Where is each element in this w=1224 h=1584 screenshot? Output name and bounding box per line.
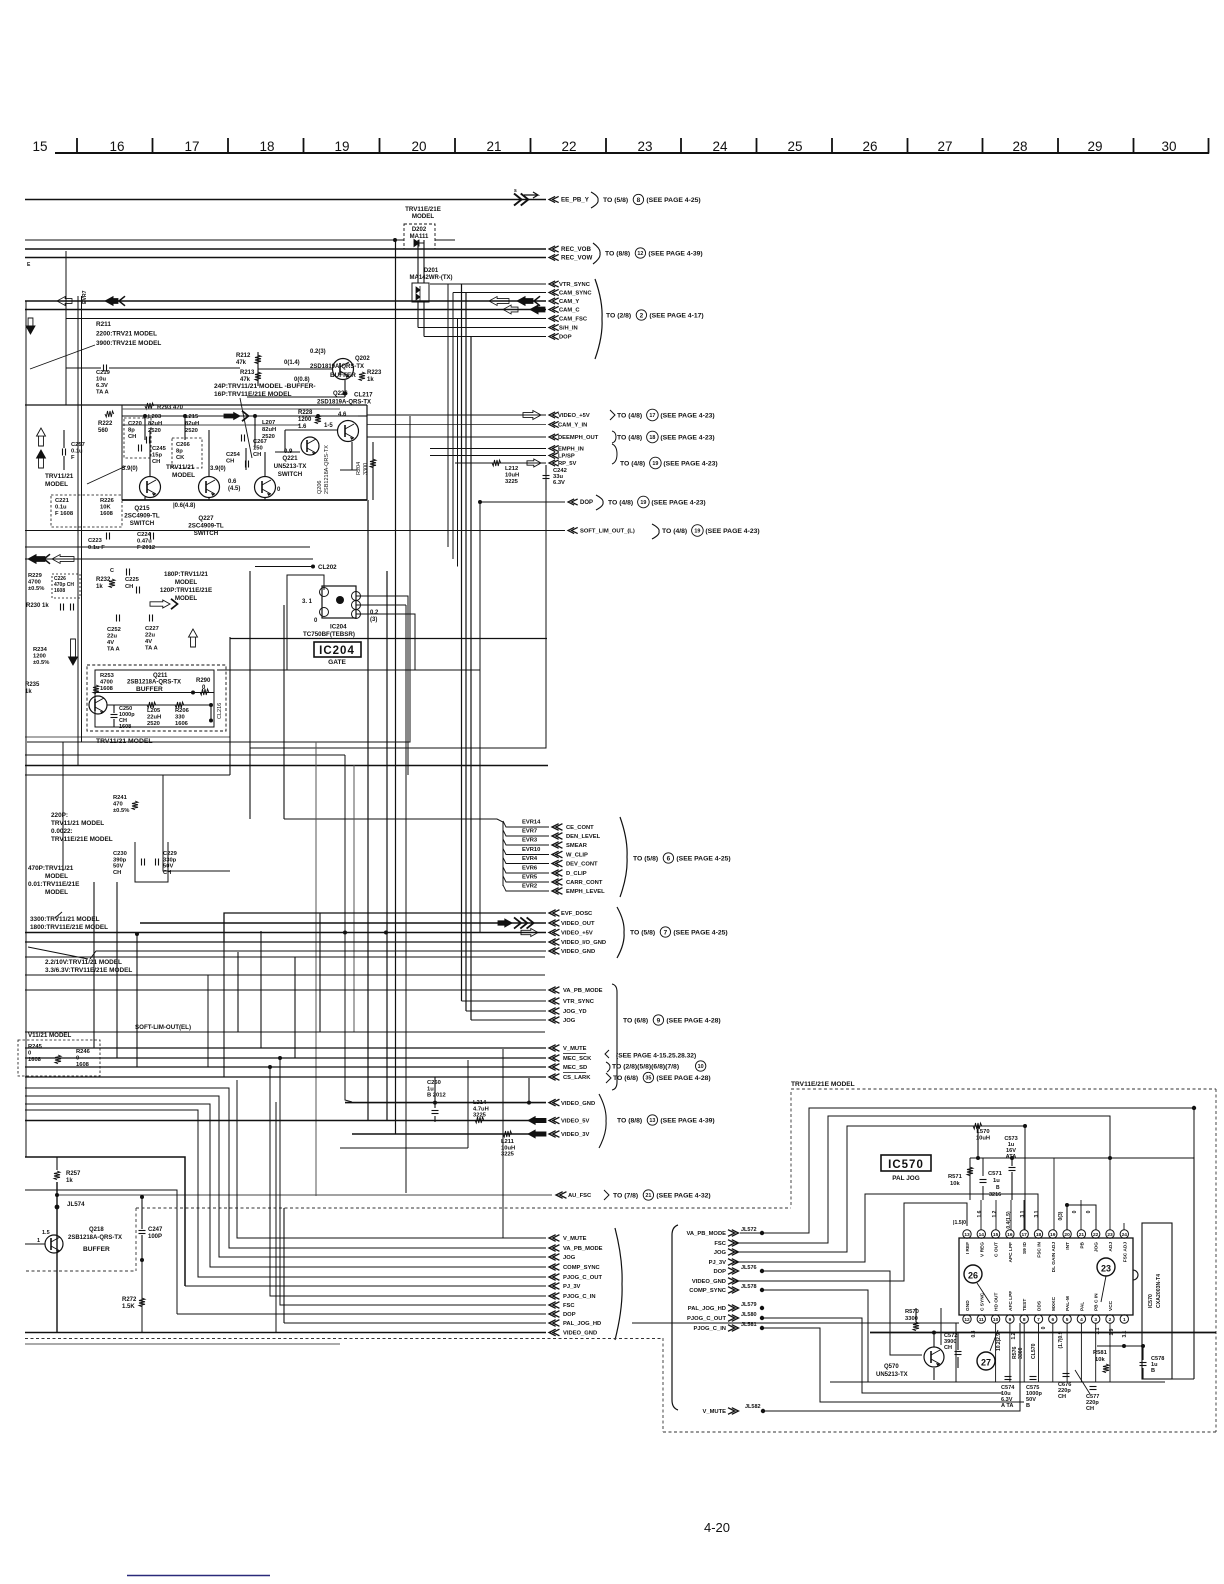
svg-text:JL581: JL581 <box>741 1322 757 1328</box>
wire EMPH_IN <box>430 448 546 450</box>
wire RP_5V <box>455 462 546 464</box>
svg-text:82uH: 82uH <box>262 427 276 433</box>
vertical bus 63 <box>62 742 64 871</box>
svg-text:12: 12 <box>637 251 643 257</box>
callout line R211 <box>30 345 95 369</box>
svg-text:C219: C219 <box>96 370 111 376</box>
svg-text:1k: 1k <box>367 377 374 383</box>
svg-text:REC_VOW: REC_VOW <box>561 255 592 262</box>
wire REC_VOW <box>25 257 546 259</box>
wire L203 stub <box>144 416 146 440</box>
svg-text:EVR6: EVR6 <box>522 866 538 872</box>
svg-text:SWITCH: SWITCH <box>194 530 219 537</box>
svg-text:1-5: 1-5 <box>324 423 333 429</box>
wire EVR feed <box>284 819 503 886</box>
svg-text:FSC IN: FSC IN <box>1037 1241 1043 1257</box>
svg-text:MXKC: MXKC <box>1051 1296 1057 1311</box>
svg-text:PAL: PAL <box>1079 1302 1085 1311</box>
svg-text:28: 28 <box>1012 139 1027 154</box>
svg-text:C254: C254 <box>226 452 241 458</box>
wire MEC_SCK <box>25 1057 546 1059</box>
svg-text:1800:TRV11E/21E MODEL: 1800:TRV11E/21E MODEL <box>30 924 108 931</box>
wire PJOG_C_IN route <box>762 1328 1024 1402</box>
svg-text:EVR5: EVR5 <box>522 875 538 881</box>
vertical bus 287b <box>286 637 288 670</box>
svg-text:4: 4 <box>1080 1317 1083 1323</box>
svg-text:INT: INT <box>1065 1242 1071 1250</box>
svg-text:V REG: V REG <box>979 1242 985 1257</box>
svg-text:R204: R204 <box>356 462 362 475</box>
svg-text:DOP: DOP <box>713 1269 726 1275</box>
svg-text:S/H_IN: S/H_IN <box>559 326 578 332</box>
arrow CAM_Y open <box>489 297 509 306</box>
svg-text:1608: 1608 <box>100 511 114 517</box>
wire box rail 425 <box>122 424 300 426</box>
svg-text:(SEE PAGE 4-25): (SEE PAGE 4-25) <box>673 929 727 936</box>
svg-text:DEEMPH_OUT: DEEMPH_OUT <box>558 435 599 441</box>
svg-text:1: 1 <box>1123 1317 1126 1323</box>
svg-text:6: 6 <box>1051 1317 1054 1323</box>
wire JOG_YD <box>466 1010 546 1012</box>
wire stair FSC <box>280 1058 546 1305</box>
svg-text:(SEE PAGE 4-32): (SEE PAGE 4-32) <box>656 1192 710 1199</box>
svg-text:1.6: 1.6 <box>298 424 307 430</box>
wire Q202 base rail <box>258 368 332 370</box>
svg-text:MODEL: MODEL <box>175 595 198 602</box>
label IC204 box <box>314 642 361 657</box>
wire q570 rail <box>870 1332 1216 1334</box>
op-amp IC204 body <box>322 586 356 618</box>
svg-text:2200:TRV21 MODEL: 2200:TRV21 MODEL <box>96 331 157 338</box>
label REC_VOB <box>549 246 559 252</box>
svg-text:V11/21 MODEL: V11/21 MODEL <box>28 1032 72 1039</box>
wire rail 1346 <box>1097 1345 1143 1347</box>
svg-text:TA A: TA A <box>145 646 158 652</box>
wire row 547 <box>25 546 310 548</box>
svg-text:TO (4/8): TO (4/8) <box>617 434 642 441</box>
wire PJOG_C_OUT route <box>762 1318 1002 1393</box>
svg-text:EVR4: EVR4 <box>522 856 538 862</box>
svg-text:30: 30 <box>1161 139 1176 154</box>
svg-text:DL GAIN ADJ: DL GAIN ADJ <box>1051 1242 1057 1273</box>
svg-text:GND: GND <box>965 1300 971 1311</box>
svg-text:GATE: GATE <box>328 659 346 666</box>
box Q218 dashed <box>136 1207 791 1209</box>
wire JOG 1020 <box>471 1019 546 1021</box>
svg-text:PB C IN: PB C IN <box>1094 1293 1100 1311</box>
svg-text:0.2: 0.2 <box>370 610 379 616</box>
labels V_MUTE group <box>549 1045 559 1052</box>
svg-text:PAL JOG: PAL JOG <box>892 1175 919 1182</box>
capacitor C266 box <box>172 438 202 468</box>
svg-text:|0.6(4.8): |0.6(4.8) <box>173 503 195 509</box>
wire V_MUTE 1048 <box>25 1047 546 1049</box>
svg-text:TO (4/8): TO (4/8) <box>608 499 633 506</box>
svg-text:C221: C221 <box>55 498 70 504</box>
svg-text:10: 10 <box>993 1317 999 1323</box>
svg-text:TA A: TA A <box>96 390 109 396</box>
svg-text:C224: C224 <box>137 532 152 538</box>
svg-text:Q215: Q215 <box>134 505 150 512</box>
vertical bus 453 <box>452 293 454 560</box>
svg-text:3900:TRV21E MODEL: 3900:TRV21E MODEL <box>96 340 161 347</box>
callout line 26 <box>977 1283 990 1303</box>
svg-text:C252: C252 <box>107 627 121 633</box>
svg-text:4700: 4700 <box>28 580 41 586</box>
svg-text:6.3V: 6.3V <box>96 383 108 389</box>
svg-text:C230: C230 <box>113 851 127 857</box>
transistor Q227 <box>199 477 220 498</box>
svg-text:1200: 1200 <box>33 654 46 660</box>
svg-text:PJOG_C_OUT: PJOG_C_OUT <box>563 1275 602 1281</box>
svg-text:R232: R232 <box>96 577 111 583</box>
transistor Q221 <box>255 477 276 498</box>
svg-text:VIDEO_GND: VIDEO_GND <box>561 1101 595 1107</box>
svg-text:20: 20 <box>1064 1232 1070 1238</box>
wire bus 765 <box>25 765 548 767</box>
svg-text:17: 17 <box>649 413 655 419</box>
arrow CAM_C open <box>503 305 518 314</box>
svg-text:(SEE PAGE 4-39): (SEE PAGE 4-39) <box>648 250 702 257</box>
svg-text:C260: C260 <box>427 1080 441 1086</box>
svg-text:Q227: Q227 <box>198 515 214 522</box>
wire VIDEO_+5V mid <box>367 414 546 416</box>
svg-text:TEST: TEST <box>1022 1299 1028 1311</box>
wire bottom rail 1379 <box>1142 1378 1194 1380</box>
svg-text:CAM_C: CAM_C <box>559 308 580 314</box>
svg-text:SOFT_LIM_OUT_(L): SOFT_LIM_OUT_(L) <box>580 529 635 535</box>
note TO page 4-23 (19a) <box>612 444 617 464</box>
svg-text:EVR7: EVR7 <box>82 290 88 304</box>
svg-text:CARR_CONT: CARR_CONT <box>566 880 603 886</box>
wire rail 1158 <box>970 1157 1194 1159</box>
svg-text:R229: R229 <box>28 573 43 579</box>
wires ic bottom pin drops <box>995 1323 997 1382</box>
vertical bus 26 <box>25 301 27 1157</box>
labels VTR_SYNC group <box>549 281 559 287</box>
wire VTR_SYNC <box>430 283 546 285</box>
svg-text:SMEAR: SMEAR <box>566 843 588 849</box>
svg-text:V_MUTE: V_MUTE <box>563 1236 587 1242</box>
svg-text:L203: L203 <box>148 414 162 420</box>
svg-text:15p: 15p <box>152 453 162 459</box>
vertical bus 66 <box>65 251 67 405</box>
svg-text:DOP: DOP <box>559 335 572 341</box>
capacitor C578 <box>1140 1362 1147 1364</box>
wire VIDEO_3V <box>352 1133 546 1135</box>
svg-text:VIDEO_+5V: VIDEO_+5V <box>561 931 593 937</box>
labels bottom group <box>549 1235 559 1242</box>
svg-text:(3): (3) <box>370 617 377 623</box>
svg-text:VCC: VCC <box>1108 1300 1114 1311</box>
svg-text:CL216: CL216 <box>217 703 223 719</box>
wire VIDEO_GND route <box>733 1203 967 1281</box>
svg-text:VTR_SYNC: VTR_SYNC <box>563 999 595 1005</box>
svg-text:JOG: JOG <box>563 1255 576 1261</box>
svg-text:3225: 3225 <box>505 479 519 485</box>
transistor Q570 <box>924 1347 944 1367</box>
svg-text:D202: D202 <box>412 227 427 233</box>
svg-text:R230 1k: R230 1k <box>26 603 49 609</box>
svg-text:EVR2: EVR2 <box>522 884 537 890</box>
vertical bus 457 <box>457 319 459 567</box>
wire IC204 p1 route <box>287 575 324 637</box>
svg-text:TO (5/8): TO (5/8) <box>603 197 628 204</box>
svg-text:3300:TRV11/21 MODEL: 3300:TRV11/21 MODEL <box>30 916 100 923</box>
svg-text:VIDEO_GND: VIDEO_GND <box>563 1331 597 1337</box>
svg-text:AFC LPF: AFC LPF <box>1008 1291 1014 1311</box>
vertical bus 406 <box>405 605 407 1193</box>
svg-text:(SEE PAGE 4-25): (SEE PAGE 4-25) <box>646 197 700 204</box>
svg-text:18: 18 <box>259 139 274 154</box>
svg-text:EVR14: EVR14 <box>522 820 541 826</box>
bracket connector <box>672 1225 678 1410</box>
wire COMP_SYNC route <box>762 1290 996 1382</box>
svg-text:50V: 50V <box>113 864 123 870</box>
svg-text:18: 18 <box>1036 1232 1042 1238</box>
wire VTR_SYNC 1001 <box>462 1000 547 1002</box>
svg-text:L214: L214 <box>473 1100 487 1106</box>
svg-text:F: F <box>71 455 75 461</box>
callout 23 <box>1097 1258 1115 1276</box>
svg-text:JL572: JL572 <box>741 1227 757 1233</box>
net EVR7 vertical <box>77 296 79 765</box>
wire CS_LARK <box>25 1076 546 1078</box>
wire REC_VOB <box>25 248 546 250</box>
svg-text:1.2: 1.2 <box>992 1210 998 1217</box>
svg-text:C227: C227 <box>145 626 159 632</box>
wire Q211 base rail <box>95 692 214 694</box>
svg-text:Q226: Q226 <box>333 391 348 397</box>
svg-text:TO (5/8): TO (5/8) <box>630 929 655 936</box>
svg-text:DOP: DOP <box>563 1312 576 1318</box>
svg-text:TRV11E/21E: TRV11E/21E <box>405 206 441 213</box>
dashed boundary bottom-left <box>25 1338 663 1340</box>
wire DOP top <box>424 336 546 338</box>
ic IC570 body <box>959 1238 1133 1315</box>
capacitor C224 <box>150 533 152 540</box>
vertical bus 320b <box>319 913 321 1032</box>
svg-text:PAL_JOG_HD: PAL_JOG_HD <box>688 1306 726 1312</box>
svg-text:(SEE PAGE 4-28): (SEE PAGE 4-28) <box>666 1017 720 1024</box>
vertical bus 224b <box>223 942 225 1077</box>
brace 17 <box>610 410 615 420</box>
wire bus 742 <box>27 416 410 742</box>
svg-text:HD OUT: HD OUT <box>994 1293 1000 1311</box>
vertical bus 316 <box>315 742 317 1196</box>
svg-text:C229: C229 <box>163 851 178 857</box>
wire bus 670 <box>217 669 480 671</box>
svg-text:CH: CH <box>125 584 133 590</box>
box C221 R226 <box>51 495 122 527</box>
svg-text:CAM_Y_IN: CAM_Y_IN <box>558 423 587 429</box>
svg-text:D_CLIP: D_CLIP <box>566 871 587 877</box>
svg-text:F 1608: F 1608 <box>55 511 74 517</box>
svg-text:23: 23 <box>637 139 652 154</box>
svg-text:R245: R245 <box>28 1044 43 1050</box>
wire 957 <box>25 956 545 958</box>
svg-text:TO (6/8): TO (6/8) <box>623 1017 648 1024</box>
svg-text:11: 11 <box>979 1317 984 1323</box>
svg-text:Q202: Q202 <box>355 356 370 362</box>
svg-text:21: 21 <box>486 139 501 154</box>
svg-text:MA142WR-(TX): MA142WR-(TX) <box>410 275 453 281</box>
arrow right 604 <box>150 600 170 608</box>
svg-text:F 2012: F 2012 <box>137 545 155 551</box>
svg-text:10k: 10k <box>950 1181 960 1187</box>
svg-text:C OUT: C OUT <box>994 1242 1000 1257</box>
svg-text:VIDEO_GND: VIDEO_GND <box>561 949 595 955</box>
svg-text:SOFT-LIM-OUT(EL): SOFT-LIM-OUT(EL) <box>135 1024 191 1031</box>
svg-text:R222: R222 <box>98 421 113 427</box>
wire CAM_Y <box>25 300 546 302</box>
svg-text:22uH: 22uH <box>147 715 161 721</box>
svg-text:UN5213-TX: UN5213-TX <box>876 1372 908 1378</box>
wire stair VA_PB_MODE <box>25 1088 546 1248</box>
svg-text:(SEE PAGE 4-23): (SEE PAGE 4-23) <box>660 434 714 441</box>
note TO page 4-23 (18) <box>612 431 616 443</box>
svg-text:JOG: JOG <box>563 1018 576 1024</box>
svg-text:9: 9 <box>657 1017 661 1024</box>
box Q211 inner <box>95 670 214 727</box>
wire VIDEO_I/O_GND <box>25 941 546 943</box>
svg-text:|1.5|0: |1.5|0 <box>953 1220 966 1226</box>
svg-text:Q221: Q221 <box>282 455 298 462</box>
svg-text:4V: 4V <box>145 639 152 645</box>
svg-text:IC570: IC570 <box>888 1159 924 1171</box>
svg-text:21: 21 <box>1079 1232 1085 1238</box>
wire box bottom stubs <box>144 497 146 500</box>
ic IC570 part box <box>1142 1223 1172 1379</box>
svg-text:2.2/10V:TRV11/21 MODEL: 2.2/10V:TRV11/21 MODEL <box>45 959 122 966</box>
svg-text:TO (6/8): TO (6/8) <box>613 1075 638 1082</box>
svg-text:8p: 8p <box>128 428 135 434</box>
svg-text:4.6: 4.6 <box>338 412 347 418</box>
svg-text:JOG_YD: JOG_YD <box>563 1009 587 1015</box>
svg-text:4V: 4V <box>107 640 114 646</box>
note TO 10 <box>606 1062 610 1072</box>
wire 1190 rail <box>25 1190 177 1314</box>
svg-text:C245: C245 <box>152 446 167 452</box>
vertical bus 395 <box>395 240 397 1134</box>
capacitor C219 <box>103 365 105 372</box>
wire Q202 emitter <box>344 380 346 393</box>
wire stair PJOG_C_IN <box>270 1067 546 1296</box>
wire PAL_JOG_HD route <box>940 1308 942 1345</box>
wire VIDEO_OUT <box>140 922 546 924</box>
svg-text:AU_FSC: AU_FSC <box>568 1193 592 1199</box>
svg-text:0.1u: 0.1u <box>55 505 67 511</box>
svg-text:UN5213-TX: UN5213-TX <box>274 463 308 470</box>
svg-text:EE_PB_Y: EE_PB_Y <box>561 197 590 204</box>
svg-text:V_MUTE: V_MUTE <box>563 1046 587 1052</box>
wire bus 748 <box>250 470 546 748</box>
svg-text:22: 22 <box>1093 1232 1099 1238</box>
svg-text:VA_PB_MODE: VA_PB_MODE <box>563 1246 603 1252</box>
svg-text:2: 2 <box>640 312 644 319</box>
svg-text:SWITCH: SWITCH <box>130 520 155 527</box>
svg-text:EMPH_LEVEL: EMPH_LEVEL <box>566 889 605 895</box>
svg-text:16: 16 <box>1007 1232 1013 1238</box>
svg-text:D201: D201 <box>424 268 439 274</box>
box main switch block <box>25 404 367 406</box>
svg-text:PAL-M: PAL-M <box>1065 1296 1071 1311</box>
svg-text:16: 16 <box>109 139 124 154</box>
svg-text:CAM_SYNC: CAM_SYNC <box>559 291 592 297</box>
svg-text:0.01:TRV11E/21E: 0.01:TRV11E/21E <box>28 881 80 888</box>
wire stair JOG <box>25 1096 546 1257</box>
svg-text:B 2012: B 2012 <box>427 1093 446 1099</box>
svg-text:MA111: MA111 <box>410 234 429 240</box>
svg-text:IC204: IC204 <box>319 645 355 657</box>
svg-text:BUFFER: BUFFER <box>330 372 356 379</box>
svg-text:CS_LARK: CS_LARK <box>563 1075 591 1081</box>
wire CAM_Y_IN <box>367 424 546 426</box>
svg-text:PJOG_C_IN: PJOG_C_IN <box>693 1326 726 1332</box>
svg-text:REC_VOB: REC_VOB <box>561 246 591 253</box>
svg-text:TRV11/21: TRV11/21 <box>166 464 195 471</box>
vertical bus 230 <box>229 637 231 775</box>
capacitor C225b <box>126 569 128 576</box>
svg-text:22: 22 <box>561 139 576 154</box>
wire PAL_JOG_HD row <box>284 1322 546 1324</box>
vertical bus 480 <box>479 502 481 932</box>
svg-text:IC570: IC570 <box>1148 1294 1154 1308</box>
svg-text:SWITCH: SWITCH <box>278 471 303 478</box>
svg-text:PJ_3V: PJ_3V <box>709 1260 727 1266</box>
svg-text:TO (7/8): TO (7/8) <box>613 1192 638 1199</box>
svg-text:VTR_SYNC: VTR_SYNC <box>559 282 591 288</box>
arrow buffer in <box>224 413 240 420</box>
wire IC204 p4 route <box>356 614 415 670</box>
svg-text:JL580: JL580 <box>741 1312 757 1318</box>
svg-text:DEN_LEVEL: DEN_LEVEL <box>566 834 601 840</box>
svg-text:3.1: 3.1 <box>1034 1210 1040 1217</box>
svg-text:(SEE PAGE 4-23): (SEE PAGE 4-23) <box>705 528 759 535</box>
svg-text:25: 25 <box>787 139 802 154</box>
transistor Q202 <box>333 359 354 380</box>
svg-text:0: 0 <box>1086 1210 1092 1213</box>
wire VIDEO_+5V 932 <box>25 932 546 934</box>
svg-text:W_CLIP: W_CLIP <box>566 853 588 859</box>
capacitor C247 <box>139 1230 146 1232</box>
vertical bus 284a <box>283 605 285 819</box>
wire SOFT_LIM_OUT <box>25 530 565 532</box>
svg-text:JL574: JL574 <box>67 1201 85 1208</box>
wire LP/SP <box>430 455 546 457</box>
wire DOP 2 <box>480 501 565 503</box>
svg-text:L212: L212 <box>505 466 518 472</box>
svg-text:JL582: JL582 <box>745 1404 761 1410</box>
svg-text:CL202: CL202 <box>318 564 337 571</box>
svg-text:Q211: Q211 <box>153 673 168 679</box>
svg-text:1u: 1u <box>993 1178 1000 1184</box>
wire bus 755 <box>25 754 345 756</box>
capacitor C572 <box>955 1351 962 1353</box>
svg-text:R226: R226 <box>100 498 115 504</box>
diode D202 MA111 <box>404 224 435 249</box>
svg-text:7: 7 <box>1037 1317 1040 1323</box>
svg-text:560: 560 <box>98 428 109 434</box>
svg-text:24P:TRV11/21 MODEL -BUFFER-: 24P:TRV11/21 MODEL -BUFFER- <box>214 383 316 390</box>
svg-text:3: 3 <box>1094 1317 1097 1323</box>
svg-text:RP_5V: RP_5V <box>558 461 577 467</box>
svg-text:CL570: CL570 <box>1031 1343 1037 1359</box>
svg-text:CXA2003N-T4: CXA2003N-T4 <box>1156 1274 1162 1308</box>
svg-text:1608: 1608 <box>100 686 114 692</box>
svg-text:16P:TRV11E/21E MODEL: 16P:TRV11E/21E MODEL <box>214 391 292 398</box>
wire D201 drop <box>417 302 419 328</box>
